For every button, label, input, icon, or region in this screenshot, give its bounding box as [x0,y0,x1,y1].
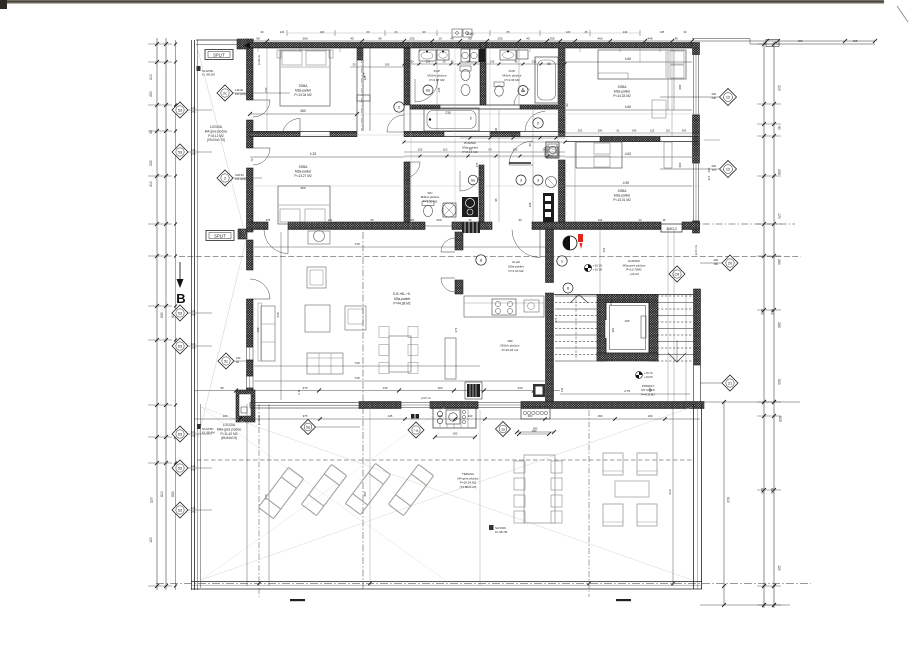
construction lines living [254,246,545,248]
svg-text:90: 90 [423,30,426,34]
svg-text:160: 160 [528,414,533,418]
wing south wall seg [532,222,661,230]
svg-text:210: 210 [149,74,153,80]
svg-text:140: 140 [632,129,637,133]
marker M5c [218,353,234,369]
elevator top wall [597,295,658,303]
svg-text:460: 460 [597,37,602,41]
sofa horizontal [307,353,343,374]
armchair [345,306,366,330]
bed bedroom1 [280,50,330,106]
svg-text:150: 150 [453,432,458,436]
svg-text:100: 100 [798,39,803,43]
dining table [389,336,411,372]
svg-text:120: 120 [566,30,571,34]
svg-text:(73.98x0.20): (73.98x0.20) [460,485,477,489]
loggia outer edge [191,40,193,590]
svg-text:200: 200 [436,218,441,222]
svg-text:271: 271 [454,327,458,332]
wall seg [479,165,484,222]
svg-text:240: 240 [623,30,628,34]
svg-text:p=49 cm: p=49 cm [257,55,261,65]
svg-text:21: 21 [728,381,732,385]
svg-text:360: 360 [300,109,306,113]
svg-text:110: 110 [545,247,549,252]
slivnik terrace [489,525,494,530]
bed bedroom2 [278,186,330,224]
section line right at wing wall [690,223,795,225]
vent box black [467,384,480,397]
AC unit mid [238,229,247,239]
svg-text:440: 440 [647,37,652,41]
svg-text:577: 577 [150,497,154,503]
svg-text:125: 125 [191,430,196,434]
svg-text:140: 140 [328,218,333,222]
svg-text:100: 100 [468,414,473,418]
svg-text:M4-gres pločice: M4-gres pločice [205,129,228,133]
svg-text:271: 271 [554,317,558,322]
marker M53-5 [172,460,188,476]
svg-text:53: 53 [178,432,182,436]
svg-text:+16.05: +16.05 [644,375,653,379]
svg-text:160: 160 [532,429,537,433]
svg-text:P=13,27 M2: P=13,27 M2 [294,174,312,178]
svg-text:190: 190 [598,218,603,222]
svg-text:KL 98.7M: KL 98.7M [495,530,508,534]
svg-text:155: 155 [490,60,495,64]
svg-text:165: 165 [624,319,629,323]
svg-text:4.75: 4.75 [624,389,630,393]
svg-text:525: 525 [778,416,782,422]
dimension grid left [156,38,158,590]
svg-text:155: 155 [426,60,431,64]
stair top wall [554,294,699,296]
svg-text:95: 95 [494,198,498,201]
svg-text:53: 53 [178,150,182,154]
svg-text:740: 740 [354,376,359,380]
svg-text:270: 270 [191,468,196,472]
svg-text:270: 270 [191,313,196,317]
svg-text:260: 260 [777,259,781,265]
svg-text:M3a-parket: M3a-parket [295,170,311,174]
svg-text:90: 90 [519,218,522,222]
svg-text:630: 630 [171,491,175,497]
svg-text:1160: 1160 [466,32,473,36]
svg-text:125: 125 [191,506,196,510]
svg-text:170: 170 [707,176,711,181]
svg-text:RM: RM [508,339,513,343]
east wall seg1 [693,43,700,55]
wall seg [490,132,520,137]
svg-text:53: 53 [178,311,182,315]
svg-text:B: B [176,291,185,306]
svg-text:270: 270 [191,110,196,114]
svg-text:155: 155 [409,37,414,41]
svg-text:90: 90 [256,37,260,41]
svg-text:630: 630 [760,309,764,315]
washing machine [442,203,456,217]
svg-text:230: 230 [410,218,415,222]
washer dryer stack [461,49,470,62]
faint long construction lines wing [410,42,412,230]
svg-text:35: 35 [663,218,666,222]
svg-text:53: 53 [178,344,182,348]
svg-text:45: 45 [526,37,530,41]
bed right room1 [598,50,686,79]
red mark [578,234,583,242]
terrace dining table [524,455,555,523]
svg-text:90: 90 [378,37,382,41]
terrace lounge set [603,453,623,475]
balcony door arc bedroom1 [253,100,270,117]
north arrow symbol [563,236,577,250]
svg-text:P=14,33 M2: P=14,33 M2 [613,94,631,98]
scan paper top edge [0,0,884,3]
svg-text:90: 90 [528,143,532,146]
svg-text:SOBA: SOBA [618,85,628,89]
svg-text:(09.02x0.75): (09.02x0.75) [207,138,225,142]
svg-text:(84.84x0.5): (84.84x0.5) [221,436,237,440]
wardrobe right room1 [667,50,669,110]
wall seg [404,162,410,222]
south wall seg [521,402,704,409]
marker M5a [301,420,316,435]
right flight treads [657,295,694,297]
door marker 6a [518,86,528,96]
svg-text:141: 141 [560,387,564,392]
svg-text:120: 120 [149,537,153,543]
svg-text:M3a-parket: M3a-parket [614,90,630,94]
svg-text:230: 230 [256,327,260,332]
marker M53-1 [172,144,188,160]
section arrow [179,262,181,281]
door arcs baths [415,79,438,102]
slivnik drain top [197,66,201,71]
svg-text:200: 200 [712,92,717,96]
bbq grid box terrace [433,408,476,428]
marker M2c [217,85,233,101]
loggia slope diagonals [198,50,246,238]
svg-text:4.62: 4.62 [625,152,632,156]
svg-text:P=11.42 M2: P=11.42 M2 [220,432,237,436]
dims under south wall y419 [194,418,700,420]
svg-text:220: 220 [149,91,153,97]
svg-text:110: 110 [443,148,448,152]
coffee table [305,305,330,332]
podest labels [636,372,643,379]
svg-text:SOBA: SOBA [299,84,309,88]
planter box [521,407,550,419]
svg-text:180: 180 [494,127,498,132]
window in west wall [247,376,254,388]
svg-text:53: 53 [178,508,182,512]
svg-text:110: 110 [666,129,671,133]
svg-text:5a: 5a [306,425,310,429]
wall rooms right y136-141 [565,136,699,138]
bath2 toilet [494,82,504,87]
opening dim 200 [420,225,458,227]
svg-text:P=8.12 M2: P=8.12 M2 [208,134,224,138]
loggia top edge [196,39,254,41]
living west furniture: tv unit [308,231,330,244]
wall seg [559,43,566,137]
wall under baths y105 [410,104,558,106]
svg-text:4.60: 4.60 [625,57,632,61]
terrace bottom dim ticks [257,582,261,586]
inner vertical guides right rooms [671,42,673,136]
svg-text:+16.20: +16.20 [629,272,639,276]
svg-text:120: 120 [777,565,781,571]
svg-text:175: 175 [475,162,479,167]
svg-text:610: 610 [668,489,672,494]
svg-text:p=47 cm: p=47 cm [421,396,431,400]
svg-text:SLB-90: SLB-90 [235,173,244,177]
svg-text:610: 610 [726,497,730,503]
svg-text:163 (200): 163 (200) [235,92,246,96]
svg-text:200: 200 [707,168,711,173]
svg-text:M3b-k.pločice: M3b-k.pločice [500,343,519,347]
svg-text:290: 290 [511,134,516,138]
svg-text:2c: 2c [223,91,227,95]
SPLIT label mid [206,231,234,241]
wall row1/row2 left [250,131,357,133]
svg-text:M3a-parket: M3a-parket [614,194,630,198]
svg-text:125: 125 [191,342,196,346]
washer circle corridor WC2 [546,177,557,188]
wall seg [330,132,357,137]
door marker 2 [394,102,404,112]
marker M53-4 [172,426,188,442]
marker M20 [722,255,738,271]
svg-text:53: 53 [178,466,182,470]
svg-text:105: 105 [853,39,858,43]
wing south wall seg [452,222,492,230]
svg-text:230: 230 [445,111,451,115]
wing south wall seg [250,222,268,230]
svg-text:20: 20 [728,261,732,265]
wall seg [404,48,410,105]
vestibule between bedroom1 and bath [369,48,371,131]
door marker 3 [516,175,526,185]
svg-text:130: 130 [517,386,522,390]
wall seg [410,105,440,109]
svg-text:7-2a: 7-2a [414,429,419,432]
svg-text:1a: 1a [501,427,505,431]
bath1 bidet [461,85,470,96]
svg-text:300: 300 [250,193,254,198]
wall seg [600,137,660,142]
svg-text:45: 45 [450,60,454,64]
svg-text:163 (200): 163 (200) [235,177,246,181]
terrace bottom edge [191,581,702,583]
left flight treads [555,295,597,297]
dim chain room right verticals [704,139,720,141]
svg-text:125: 125 [191,309,196,313]
sofa vertical [261,306,275,361]
svg-text:6a: 6a [471,178,475,182]
svg-text:200: 200 [714,258,719,262]
svg-text:125: 125 [418,148,423,152]
small dim 160 [519,433,549,435]
svg-text:57: 57 [469,116,473,120]
svg-text:160: 160 [598,414,603,418]
svg-text:270: 270 [191,346,196,350]
svg-text:160: 160 [437,386,442,390]
svg-text:20: 20 [395,30,398,34]
svg-text:45: 45 [514,60,518,64]
south wall seg [359,402,401,409]
svg-text:190: 190 [385,63,390,67]
svg-text:29: 29 [675,272,679,276]
lounge chair 2 [301,464,346,515]
svg-text:M4a-gres pločice: M4a-gres pločice [217,427,241,431]
svg-text:130: 130 [648,414,653,418]
svg-text:255: 255 [549,37,554,41]
svg-text:45: 45 [674,37,678,41]
svg-text:30: 30 [684,30,687,34]
terrace dashed line [197,459,692,461]
boiler black [462,197,478,217]
svg-text:130: 130 [438,414,443,418]
svg-text:145: 145 [388,414,393,418]
sink WC2 [545,147,558,157]
svg-text:45: 45 [371,218,374,222]
svg-text:45: 45 [585,30,588,34]
svg-text:P=10,03 m2: P=10,03 m2 [502,348,519,352]
svg-text:P=44,38 M2: P=44,38 M2 [393,302,411,306]
lounge chair 3 [345,463,390,514]
marker M2 [217,170,233,186]
svg-text:290: 290 [598,129,603,133]
vertical 630 dim [280,232,282,400]
wall kitchen east [546,230,554,283]
svg-text:230: 230 [712,96,717,100]
vertical construction lines terrace [246,404,248,586]
svg-text:70: 70 [250,158,254,162]
terrace east edge [693,404,695,589]
svg-text:30: 30 [149,130,153,134]
svg-text:SPLIT: SPLIT [214,234,226,239]
svg-text:D.B.+BL.+K.: D.B.+BL.+K. [393,292,411,296]
east windows [694,55,699,116]
svg-text:210: 210 [264,87,268,92]
door arc bedroom2 [282,119,300,137]
cabinet [307,267,326,288]
double entry doors [441,238,455,252]
wall loggia-inner seg [247,240,254,270]
bath1 toilet [460,66,471,71]
svg-text:45: 45 [350,37,354,41]
svg-text:LOGGIA: LOGGIA [210,125,223,129]
SPLIT label top [205,50,233,60]
svg-text:4.60: 4.60 [625,105,632,109]
wall stair west [546,293,554,407]
svg-text:270: 270 [191,152,196,156]
svg-text:235: 235 [777,169,781,175]
svg-text:M3a-parket: M3a-parket [394,297,410,301]
grid vent box [462,222,480,233]
svg-text:65: 65 [507,30,510,34]
up arrow entry stairs [570,295,588,304]
down arrow right flight [668,353,686,362]
svg-text:375: 375 [302,386,307,390]
north wall [250,43,692,49]
svg-text:630: 630 [276,312,280,317]
svg-text:255: 255 [532,60,537,64]
window in west wall [247,347,254,360]
marker M1a [496,422,511,437]
lounge chair 1 [258,467,303,518]
svg-text:90: 90 [777,126,781,130]
svg-text:223: 223 [602,247,606,252]
svg-text:200: 200 [712,164,717,168]
svg-text:3: 3 [537,178,539,182]
fridge [533,384,545,397]
svg-text:ULAZ: ULAZ [512,260,520,264]
svg-text:328: 328 [528,202,532,207]
ticks detail rows [403,63,406,66]
corridor h-dims [460,137,565,139]
svg-text:65: 65 [466,60,470,64]
svg-text:61: 61 [617,129,620,133]
svg-text:53: 53 [178,108,182,112]
wall loggia-inner seg [247,388,254,404]
tiny dark marks [411,414,415,419]
svg-text:KUP.: KUP. [509,69,516,73]
svg-text:2.11: 2.11 [297,389,301,395]
svg-text:+16.58: +16.58 [593,268,602,272]
svg-text:610: 610 [770,309,774,315]
svg-text:6a: 6a [426,88,430,92]
svg-text:90: 90 [565,103,569,107]
svg-text:120: 120 [648,387,652,392]
wall loggia-inner seg [247,120,254,148]
svg-text:360: 360 [302,37,307,41]
dim chain under north wall y64 [404,63,565,65]
section line B-B dashed [179,256,801,258]
svg-text:145: 145 [382,386,387,390]
wall loggia-inner seg [247,39,254,100]
wall seg [480,43,486,106]
svg-text:10: 10 [438,37,442,41]
east wall seg2 [693,115,700,163]
wall seg [455,280,463,294]
svg-text:230: 230 [236,356,241,360]
svg-text:P=13,01 M2: P=13,01 M2 [613,198,631,202]
wall seg [250,132,300,137]
AC unit [237,39,248,49]
svg-text:125: 125 [191,148,196,152]
level marker entry [584,264,591,271]
svg-text:2: 2 [224,176,226,180]
marker M72a [408,422,424,438]
short dashes below terrace [290,599,305,601]
door marker 1 [557,256,567,266]
wall seg [357,48,363,60]
door marker 6a [468,175,478,185]
door marker 3 [533,175,543,185]
svg-text:160: 160 [609,300,613,305]
elevator east wall [649,302,658,361]
svg-text:3: 3 [520,178,522,182]
door marker 6a [423,85,433,95]
lounge chair 4 [388,464,433,515]
wardrobe right room2 [664,142,672,168]
small dim marks above north wall [286,30,288,36]
svg-text:12: 12 [726,95,730,99]
south wall window band living [250,403,360,409]
svg-text:375: 375 [303,414,308,418]
